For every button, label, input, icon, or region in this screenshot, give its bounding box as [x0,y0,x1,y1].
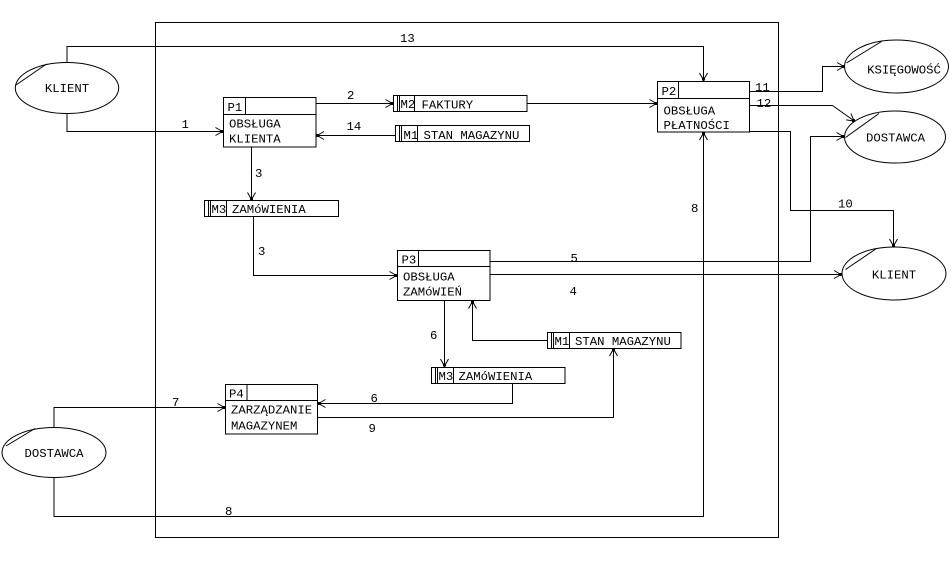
svg-text:4: 4 [570,285,577,299]
svg-text:3: 3 [255,167,262,181]
svg-text:M1: M1 [555,335,570,349]
svg-text:DOSTAWCA: DOSTAWCA [866,132,926,146]
svg-text:11: 11 [755,81,770,95]
svg-text:9: 9 [369,422,376,436]
svg-text:8: 8 [691,202,698,216]
svg-text:ZAMóWIENIA: ZAMóWIENIA [459,370,533,384]
svg-text:3: 3 [258,245,265,259]
svg-text:OBSŁUGA: OBSŁUGA [664,105,716,119]
svg-text:OBSŁUGA: OBSŁUGA [229,118,281,132]
svg-text:FAKTURY: FAKTURY [422,99,474,113]
svg-text:P1: P1 [228,101,243,115]
svg-text:8: 8 [225,505,232,519]
svg-text:ZAMóWIEŃ: ZAMóWIEŃ [403,285,462,300]
svg-text:6: 6 [371,392,378,406]
svg-text:1: 1 [182,118,189,132]
svg-text:MAGAZYNEM: MAGAZYNEM [231,420,297,434]
svg-text:KSIĘGOWOŚĆ: KSIĘGOWOŚĆ [867,63,941,78]
svg-text:M3: M3 [212,203,227,217]
svg-text:M1: M1 [404,129,419,143]
svg-text:OBSŁUGA: OBSŁUGA [403,271,455,285]
svg-text:DOSTAWCA: DOSTAWCA [24,447,84,461]
svg-text:PŁATNOŚCI: PŁATNOŚCI [664,118,730,133]
svg-text:13: 13 [400,32,415,46]
svg-text:KLIENTA: KLIENTA [229,133,281,147]
svg-text:STAN MAGAZYNU: STAN MAGAZYNU [575,335,671,349]
svg-text:M2: M2 [401,98,416,112]
svg-text:P4: P4 [229,388,244,402]
svg-text:5: 5 [571,252,578,266]
svg-text:10: 10 [838,198,853,212]
svg-text:14: 14 [347,120,362,134]
svg-text:ZAMóWIENIA: ZAMóWIENIA [232,203,306,217]
svg-text:2: 2 [347,89,354,103]
svg-text:STAN MAGAZYNU: STAN MAGAZYNU [424,129,520,143]
svg-text:12: 12 [757,97,772,111]
svg-text:6: 6 [430,329,437,343]
svg-text:7: 7 [172,396,179,410]
svg-text:P3: P3 [402,254,417,268]
svg-text:ZARZĄDZANIE: ZARZĄDZANIE [231,404,312,418]
svg-text:KLIENT: KLIENT [872,269,916,283]
svg-text:KLIENT: KLIENT [45,82,89,96]
svg-text:M3: M3 [439,370,454,384]
svg-text:P2: P2 [662,85,677,99]
